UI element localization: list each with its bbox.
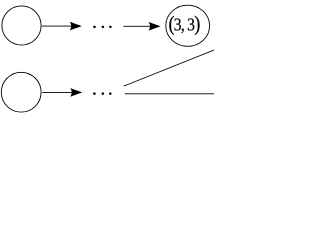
wire: top edge shaft from top-left state <box>42 25 73 27</box>
wire: top edge shaft into state (3,3) <box>123 25 151 27</box>
arrowhead of bottom edge <box>70 88 82 97</box>
wire: horizontal edge toward off-canvas state <box>125 93 214 95</box>
arrowhead into state (3,3) <box>149 22 161 31</box>
state (3,3) ellipse <box>166 5 210 46</box>
label (3, 3) <box>168 12 199 36</box>
state circle bottom-left <box>1 72 41 112</box>
wire: diagonal edge toward off-canvas state <box>124 50 214 86</box>
wire: bottom edge shaft from bottom-left state <box>42 91 73 93</box>
arrowhead of top edge <box>70 22 82 31</box>
svg-text:(3, 3): (3, 3) <box>168 12 199 36</box>
ellipsis dot 1 (bottom row) <box>93 92 96 95</box>
ellipsis dot 3 (bottom row) <box>109 92 112 95</box>
ellipsis dot 1 (top row) <box>93 26 96 29</box>
ellipsis dot 2 (bottom row) <box>102 92 105 95</box>
ellipsis dot 3 (top row) <box>109 26 112 29</box>
ellipsis dot 2 (top row) <box>102 26 105 29</box>
state circle top-left <box>2 6 41 45</box>
